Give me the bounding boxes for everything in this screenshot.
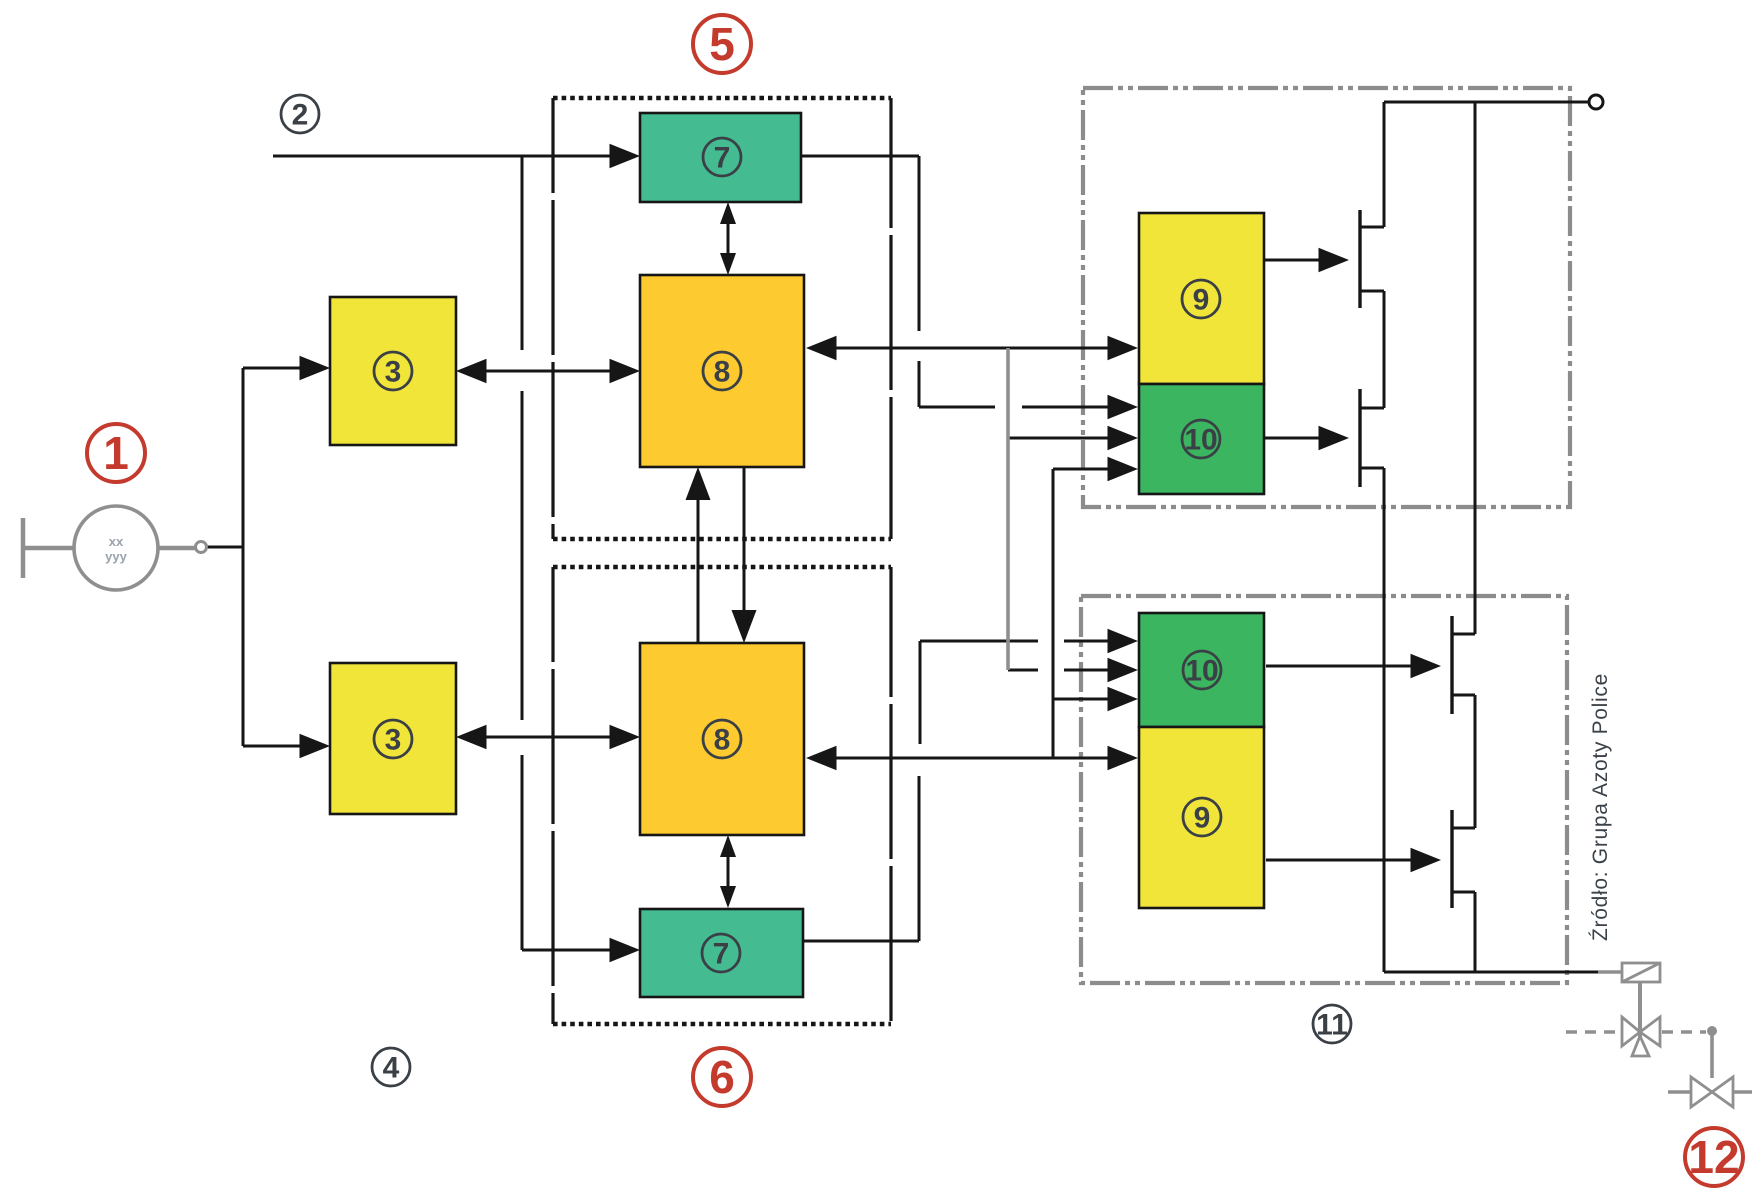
svg-text:10: 10 <box>1184 424 1217 457</box>
svg-text:1: 1 <box>103 427 129 479</box>
svg-text:3: 3 <box>385 356 402 389</box>
svg-text:2: 2 <box>292 99 309 132</box>
svg-text:8: 8 <box>714 724 731 757</box>
svg-text:yyy: yyy <box>105 549 127 564</box>
svg-text:4: 4 <box>383 1052 400 1085</box>
svg-text:7: 7 <box>713 938 730 971</box>
svg-text:12: 12 <box>1688 1131 1739 1183</box>
svg-text:11: 11 <box>1316 1009 1348 1042</box>
svg-text:9: 9 <box>1194 802 1211 835</box>
svg-text:5: 5 <box>709 18 735 70</box>
svg-text:6: 6 <box>709 1051 735 1103</box>
svg-text:8: 8 <box>714 356 731 389</box>
svg-text:3: 3 <box>385 724 402 757</box>
svg-text:10: 10 <box>1185 655 1218 688</box>
svg-text:9: 9 <box>1193 284 1210 317</box>
svg-text:xx: xx <box>109 534 124 549</box>
svg-text:Źródło: Grupa Azoty Police: Źródło: Grupa Azoty Police <box>1589 673 1612 941</box>
svg-text:7: 7 <box>714 142 731 175</box>
